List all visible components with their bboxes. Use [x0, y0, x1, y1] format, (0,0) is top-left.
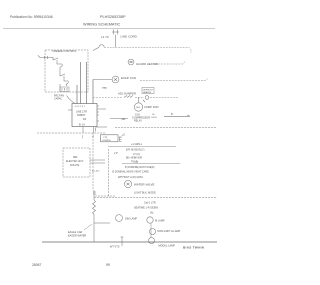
svg-text:LINE CORD: LINE CORD [121, 35, 138, 39]
svg-text:M LAMP: M LAMP [155, 220, 165, 223]
svg-text:ROBOT: ROBOT [77, 114, 86, 117]
svg-text:CTR: CTR [103, 137, 108, 139]
svg-text:PLHS26523BP: PLHS26523BP [100, 15, 126, 19]
svg-text:L1 70: L1 70 [101, 35, 109, 39]
svg-text:RELAY: RELAY [134, 120, 142, 123]
svg-text:WATER VALVE: WATER VALVE [134, 183, 155, 187]
svg-text:A-1,B-2: A-1,B-2 [92, 170, 100, 173]
svg-text:ELECTRA 120 T: ELECTRA 120 T [66, 160, 84, 163]
svg-text:99: 99 [106, 263, 110, 267]
svg-text:BIAS TWAIN: BIAS TWAIN [183, 246, 204, 250]
svg-text:26067: 26067 [32, 263, 42, 267]
svg-text:OVLD: OVLD [151, 117, 157, 119]
svg-text:MODUL LAMP: MODUL LAMP [159, 245, 176, 248]
svg-text:GR: GR [122, 118, 126, 121]
svg-text:LT (A): LT (A) [133, 153, 140, 156]
svg-text:TW(B): TW(B) [131, 160, 138, 163]
svg-text:SEATIME 1-R GEEW: SEATIME 1-R GEEW [134, 207, 158, 210]
svg-text:DIM LAMP: DIM LAMP [125, 218, 137, 221]
svg-text:B-R: MY(B) RL(Y): B-R: MY(B) RL(Y) [126, 150, 145, 152]
svg-text:COMPLE: COMPLE [102, 140, 111, 142]
svg-text:MAA: MAA [102, 87, 107, 90]
svg-text:B (COMPRE) MUST USE(D): B (COMPRE) MUST USE(D) [125, 167, 155, 169]
svg-text:MID: MID [73, 156, 78, 159]
svg-text:ADJ DAMPER: ADJ DAMPER [118, 92, 136, 96]
svg-text:IS DOMINAL MURS VIGHT CARE: IS DOMINAL MURS VIGHT CARE [112, 171, 149, 174]
svg-text:WIRING SCHEMATIC: WIRING SCHEMATIC [83, 23, 121, 27]
svg-text:EVAP. FAN: EVAP. FAN [121, 76, 136, 80]
svg-text:HEATER: HEATER [143, 91, 152, 94]
svg-text:Call 1 LTR: Call 1 LTR [144, 202, 156, 205]
svg-text:WITHOUT A (D) DATA: WITHOUT A (D) DATA [118, 176, 143, 179]
svg-text:B- 14: B- 14 [79, 124, 85, 127]
svg-text:GUARD HEATER: GUARD HEATER [136, 62, 158, 66]
svg-text:LIGHT BLK, MODE: LIGHT BLK, MODE [134, 192, 156, 195]
svg-text:4 3 2 1 8 1: 4 3 2 1 8 1 [75, 106, 86, 108]
svg-text:FREEZE CONTROL: FREEZE CONTROL [53, 49, 77, 53]
svg-text:EAGER WATER: EAGER WATER [68, 235, 86, 238]
svg-text:(A): (A) [150, 212, 154, 215]
svg-text:CAPAC: CAPAC [54, 98, 62, 101]
svg-text:SOLVTE: SOLVTE [70, 164, 80, 167]
svg-text:DF: DF [83, 118, 87, 121]
svg-text:+1 GRN-x: +1 GRN-x [131, 143, 143, 146]
svg-text:2 P: 2 P [114, 152, 118, 155]
svg-text:Publication No: 5995410346: Publication No: 5995410346 [10, 15, 53, 19]
svg-text:COMP. RUN: COMP. RUN [144, 105, 159, 109]
svg-text:WT VTS: WT VTS [110, 246, 120, 249]
svg-text:DOM LIMIT & LAMP: DOM LIMIT & LAMP [158, 230, 181, 233]
